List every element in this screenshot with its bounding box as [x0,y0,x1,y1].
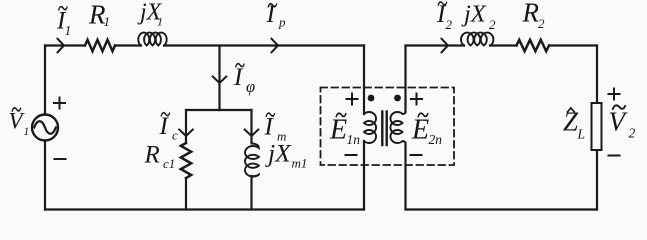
wire: jXm1 branch lower [250,176,252,210]
transformer core line right [386,112,388,146]
wire: left vertical lower [44,141,46,210]
svg-text:1: 1 [157,15,163,29]
label Ip [266,1,287,30]
wire: Rc1 branch lower [185,178,187,210]
arrow Iphi [213,77,227,84]
wire: secondary transformer lead upper [404,46,406,113]
svg-text:φ: φ [246,77,255,96]
resistor Rc1 [181,143,191,178]
load impedance ZL box [592,103,602,150]
svg-text:2: 2 [446,17,453,32]
resistor R2 [517,40,550,51]
label Rc1 [144,142,176,172]
label I1 [56,7,71,39]
polarity minus of V2 [609,155,620,157]
wire: secondary transformer lead lower [404,143,406,210]
transformer primary winding [364,112,376,143]
inductor jX2 [461,33,493,46]
inductor jX1 [138,33,166,46]
label V1 [9,108,30,138]
wire: secondary top left segment [406,44,465,46]
svg-text:jX: jX [461,0,487,27]
polarity plus of V1 [54,98,65,109]
label Im [264,113,287,144]
label ZL [563,107,585,142]
label Ic [159,113,179,143]
label jXm1 [265,139,307,171]
arrow I2 [442,39,449,53]
polarity plus of E2n [411,94,422,105]
svg-text:2n: 2n [429,132,443,147]
polarity plus of V2 [609,89,620,100]
wire: jXm1 branch upper [250,110,252,143]
svg-text:p: p [278,15,286,30]
svg-text:1n: 1n [347,132,361,147]
arrow Im [245,130,259,137]
svg-text:R: R [522,0,540,28]
polarity minus of E1n [346,154,357,156]
voltage source V1 circle [32,115,58,141]
polarity minus of V1 [55,158,66,160]
svg-text:R: R [144,142,160,169]
wire: primary top right segment [164,44,364,46]
wire: primary transformer lead lower [363,141,365,210]
wire: secondary top middle segment [490,44,517,46]
svg-text:1: 1 [65,23,72,38]
polarity minus of E2n [411,154,422,156]
arrow Ip [272,39,279,53]
label V2 [609,105,636,140]
svg-text:m1: m1 [292,156,308,171]
inductor jXm1 [245,144,259,177]
wire: shunt bar [186,109,252,111]
label I2 [436,1,453,32]
wire: shunt node stem [218,46,220,111]
label jX1 [137,0,163,29]
svg-text:L: L [577,127,586,142]
label Iphi [233,64,255,97]
label E1n [329,113,360,147]
voltage source V1 sine [34,121,56,133]
wire: left vertical upper [44,46,46,115]
wire: primary top middle segment [115,44,141,46]
transformer core line left [381,112,383,146]
wire: primary transformer lead upper [363,46,365,115]
svg-text:1: 1 [104,14,111,29]
svg-text:2: 2 [489,17,496,32]
wire: secondary bottom [406,208,598,210]
transformer dot primary [368,95,375,102]
label jX2 [461,0,496,32]
wire: right vertical lower [596,150,598,210]
arrow I1 [58,39,65,53]
svg-text:c: c [172,128,178,143]
label E2n [411,113,442,147]
transformer secondary winding [390,112,405,144]
svg-text:1: 1 [24,126,30,138]
transformer dot secondary [394,95,401,102]
dashed box around ideal transformer [321,88,455,166]
resistor R1 [85,40,115,51]
polarity plus of E1n [347,94,358,105]
svg-text:E: E [411,115,429,146]
arrow Ic [179,130,193,137]
wire: primary bottom [45,208,364,210]
wire: Rc1 branch upper [185,110,187,143]
svg-text:2: 2 [538,16,545,31]
label R1 [88,0,110,30]
svg-text:c1: c1 [163,156,175,171]
svg-text:jX: jX [265,139,292,168]
wire: primary top left segment [45,44,85,46]
wire: secondary top right segment [549,44,597,46]
wire: right vertical upper [596,46,598,104]
svg-text:2: 2 [629,126,636,141]
label R2 [522,0,546,31]
svg-text:E: E [329,115,347,146]
